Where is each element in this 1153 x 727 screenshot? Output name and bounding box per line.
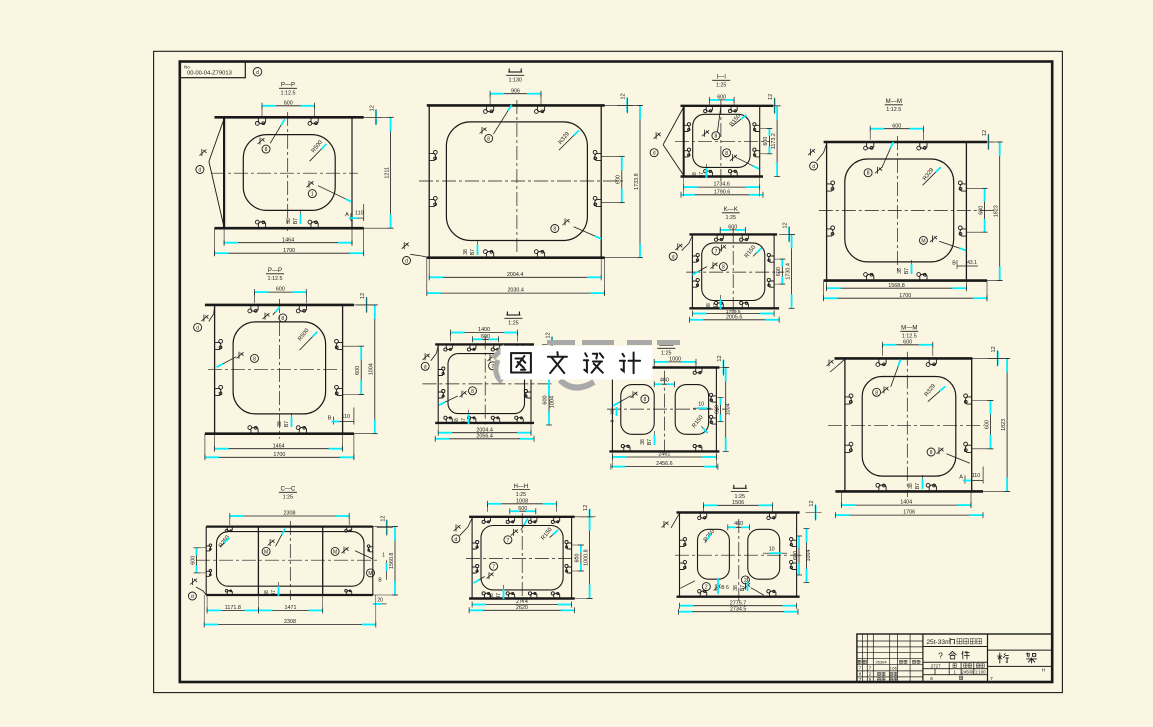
svg-text:12: 12 [546,332,552,338]
svg-text:600: 600 [616,175,622,184]
svg-text:12: 12 [360,293,366,299]
svg-text:8: 8 [265,147,268,153]
svg-text:600: 600 [481,334,490,340]
svg-text:d: d [672,254,675,260]
svg-text:B7: B7 [713,303,719,309]
svg-text:600: 600 [776,267,782,276]
svg-text:1008: 1008 [516,498,528,504]
svg-text:38: 38 [286,218,292,224]
svg-text:1730.4: 1730.4 [785,263,791,280]
svg-text:38: 38 [463,249,469,255]
svg-text:1700: 1700 [283,248,295,254]
svg-text:B7: B7 [740,585,746,591]
svg-text:10: 10 [769,546,775,552]
svg-text:d: d [653,151,656,157]
svg-text:8: 8 [281,316,284,322]
svg-text:12: 12 [583,505,589,511]
svg-text:d: d [199,168,202,174]
svg-text:600: 600 [793,551,799,560]
svg-text:B7: B7 [647,439,653,445]
svg-text:8: 8 [253,356,256,362]
svg-text:600: 600 [984,420,990,429]
svg-text:24500: 24500 [961,670,974,675]
svg-text:7: 7 [990,676,993,682]
svg-text:12: 12 [380,516,386,522]
svg-text:38: 38 [640,439,646,445]
svg-text:8: 8 [725,151,728,157]
svg-text:25304: 25304 [875,660,887,665]
svg-text:460: 460 [660,378,669,384]
svg-text:1:25: 1:25 [726,215,737,221]
svg-text:600: 600 [276,287,285,293]
svg-text:1211: 1211 [384,167,390,179]
svg-text:600: 600 [714,405,720,414]
svg-text:600: 600 [892,123,901,129]
svg-text:12: 12 [370,105,376,111]
svg-text:P—P: P—P [281,82,295,89]
svg-text:B7: B7 [470,249,476,255]
svg-text:1823: 1823 [994,205,1000,217]
svg-text:M—M: M—M [901,325,917,332]
svg-text:906: 906 [511,88,520,94]
svg-text:600: 600 [518,506,527,512]
svg-text:2004.4: 2004.4 [507,272,524,278]
svg-text:38: 38 [264,590,270,596]
svg-text:1733.8: 1733.8 [634,173,640,190]
svg-text:B7: B7 [496,593,502,599]
svg-text:8: 8 [875,390,878,396]
svg-text:2308: 2308 [284,511,296,517]
svg-text:1700: 1700 [899,293,911,299]
svg-text:C—C: C—C [280,486,295,493]
svg-text:1000: 1000 [669,357,681,363]
svg-text:8: 8 [930,450,933,456]
svg-text:1:12.5: 1:12.5 [281,91,296,97]
svg-text:2: 2 [705,585,708,591]
svg-text:600: 600 [355,366,361,375]
svg-text:2005.6: 2005.6 [726,314,743,320]
svg-text:8: 8 [487,136,490,142]
svg-text:600: 600 [543,395,549,404]
svg-text:B7: B7 [284,421,290,427]
svg-text:12: 12 [809,500,815,506]
svg-text:8: 8 [867,171,870,177]
svg-text:1:12.5: 1:12.5 [268,276,283,282]
svg-text:B7: B7 [461,418,467,424]
svg-text:38: 38 [692,172,698,178]
svg-text:2620: 2620 [516,605,528,611]
svg-text:110: 110 [341,414,350,420]
svg-text:38: 38 [489,593,495,599]
svg-text:2734.5: 2734.5 [730,606,747,612]
svg-text:H—H: H—H [513,483,528,490]
svg-text:d: d [455,537,458,543]
svg-text:1790.6: 1790.6 [714,189,731,195]
svg-text:600: 600 [903,339,912,345]
svg-text:600: 600 [284,100,293,106]
svg-text:600: 600 [728,225,737,231]
svg-text:B 6: B 6 [721,585,729,591]
svg-text:1400: 1400 [478,327,490,333]
svg-text:600: 600 [717,95,726,101]
svg-text:1:25: 1:25 [508,321,519,327]
svg-text:1700: 1700 [273,452,285,458]
svg-text:10: 10 [698,402,704,408]
svg-text:K—K: K—K [724,206,738,213]
svg-text:1:25: 1:25 [735,494,746,500]
svg-text:M: M [333,549,337,555]
svg-text:1404: 1404 [900,500,912,506]
svg-text:P—P: P—P [268,267,282,274]
svg-text:1:12.5: 1:12.5 [886,107,901,113]
svg-text:?: ? [938,651,943,660]
svg-text:1: 1 [382,553,385,559]
svg-text:8: 8 [715,134,718,140]
svg-text:1:25: 1:25 [283,495,294,501]
svg-text:2727: 2727 [931,664,942,669]
svg-text:1734.6: 1734.6 [713,182,730,188]
svg-text:d: d [424,364,427,370]
svg-text:1464: 1464 [282,237,294,243]
svg-text:B7: B7 [293,218,299,224]
svg-text:6: 6 [930,676,933,682]
svg-text:d: d [812,164,815,170]
svg-text:2004.4: 2004.4 [476,427,493,433]
svg-text:1:66: 1:66 [889,666,898,671]
svg-text:1706: 1706 [903,510,915,516]
svg-text:1:100: 1:100 [975,670,986,675]
svg-text:600: 600 [763,137,769,146]
svg-text:M: M [264,549,268,555]
svg-text:B7: B7 [271,590,277,596]
svg-text:38: 38 [897,268,903,274]
svg-text:B7: B7 [699,172,705,178]
svg-text:38: 38 [908,483,914,489]
svg-text:No: No [184,65,190,70]
svg-text:43.1: 43.1 [967,260,977,266]
svg-text:00-00-04-Z79013: 00-00-04-Z79013 [187,71,232,77]
svg-text:8: 8 [644,397,647,403]
svg-text:12: 12 [621,93,627,99]
svg-text:600: 600 [190,556,196,565]
svg-text:1171.8: 1171.8 [225,605,241,611]
svg-text:1568.8: 1568.8 [888,283,905,289]
svg-text:1:25: 1:25 [516,492,527,498]
svg-text:38: 38 [610,409,615,415]
svg-text:B: B [952,261,956,267]
svg-text:2308: 2308 [284,619,296,625]
svg-text:1560.8: 1560.8 [389,553,395,570]
svg-text:600: 600 [978,206,984,215]
svg-text:8: 8 [553,227,556,233]
svg-text:38: 38 [733,585,739,591]
svg-text:1464: 1464 [273,443,285,449]
svg-text:2461: 2461 [658,452,670,458]
svg-text:460: 460 [734,521,743,527]
svg-text:B: B [328,416,332,422]
svg-text:12: 12 [982,130,988,136]
svg-text:B: B [610,419,615,422]
svg-text:2056.4: 2056.4 [476,433,493,439]
svg-text:d: d [196,325,199,331]
svg-text:B7: B7 [904,268,910,274]
svg-text:1173.2: 1173.2 [771,133,777,149]
svg-text:d: d [191,594,194,600]
svg-text:8: 8 [471,389,474,395]
svg-text:38: 38 [277,421,283,427]
svg-text:B7: B7 [915,483,921,489]
svg-text:12: 12 [991,346,997,352]
svg-text:12: 12 [783,222,789,228]
svg-text:38: 38 [706,303,712,309]
svg-text:1506: 1506 [732,500,744,506]
svg-text:1000.8: 1000.8 [583,549,589,566]
svg-text:20: 20 [377,598,383,604]
svg-text:1: 1 [311,192,314,198]
svg-text:600: 600 [575,554,581,563]
svg-text:A: A [345,212,349,218]
svg-text:2456.6: 2456.6 [656,461,673,467]
svg-text:1:130: 1:130 [508,78,522,84]
svg-text:7: 7 [507,538,510,544]
svg-text:110: 110 [972,473,981,479]
svg-text:12: 12 [768,94,774,100]
svg-text:M: M [921,238,925,244]
svg-text:M—M: M—M [886,98,902,105]
svg-text:M: M [368,571,372,577]
svg-text:7: 7 [715,249,718,255]
svg-text:H: H [1042,668,1046,674]
svg-text:1:25: 1:25 [716,83,727,89]
svg-text:d: d [405,259,408,265]
svg-text:7: 7 [492,564,495,570]
svg-text:1004: 1004 [550,396,556,408]
svg-text:38: 38 [454,418,460,424]
svg-text:d: d [256,70,259,76]
svg-text:I—I: I—I [716,74,726,81]
svg-text:25t-33m: 25t-33m [926,639,951,646]
svg-text:1823: 1823 [1001,419,1007,431]
svg-text:2030.4: 2030.4 [507,288,524,294]
svg-text:1004: 1004 [726,403,732,415]
svg-text:12: 12 [717,355,723,361]
svg-text:1004: 1004 [369,363,375,375]
svg-text:A: A [959,475,963,481]
svg-text:8: 8 [722,265,725,271]
svg-text:110: 110 [355,211,364,217]
svg-text:1471: 1471 [285,605,297,611]
svg-text:1004: 1004 [806,550,812,562]
